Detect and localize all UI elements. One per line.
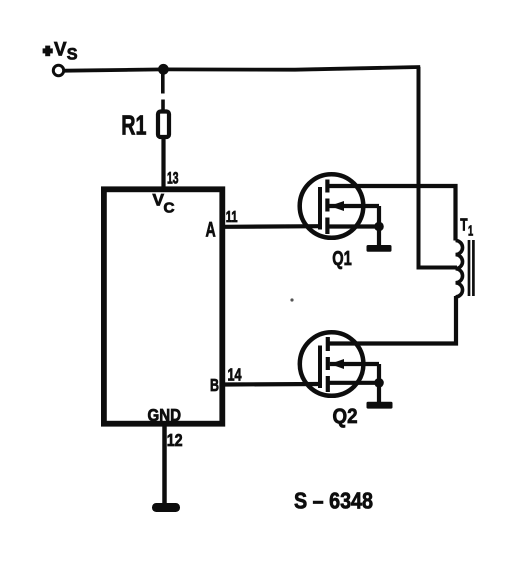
wire (+Vs terminal to junction) [65,69,164,70]
inductor T1 primary winding [456,241,463,297]
ground (below IC pin 12) [152,503,180,512]
wire (Q2 source lead to body junction) [328,381,379,385]
wire (pin 14 / B to Q2 gate) [225,382,320,387]
wire (junction to right corner of +Vs rail) [163,67,420,70]
node junction dot on +Vs rail [158,64,169,75]
svg-text:1: 1 [468,223,473,240]
transistor Q1 (MOSFET) [300,174,379,238]
wire (pin 11 / A to Q1 gate) [225,224,320,229]
wire (junction down to resistor R1, with scan gap) [161,69,165,93]
ground (Q2 source) [367,402,393,409]
svg-text:Q2: Q2 [333,405,358,428]
wire (Q1 source lead to body junction) [327,224,379,228]
ground (Q1 source) [367,245,392,252]
IC U1 (PWM driver body) [104,189,222,423]
label Vc (pin 13 name inside IC) [153,192,176,217]
label T1 [460,215,473,240]
svg-text:GND: GND [148,405,182,425]
wire (Q1 body lead down to ground) [377,206,381,246]
node +Vs label [43,39,78,63]
svg-text:C: C [164,201,176,217]
svg-text:V: V [54,39,67,60]
wire (+Vs rail down to transformer center tap corner) [419,67,458,268]
svg-text:11: 11 [226,209,238,226]
svg-text:12: 12 [167,430,183,450]
terminal (+Vs input circle) [53,65,63,75]
svg-text:14: 14 [228,365,242,385]
wire (Q2 body lead down to ground) [377,364,381,403]
svg-text:T: T [460,215,468,235]
wire (Q1 drain to transformer top) [327,186,455,241]
svg-text:13: 13 [167,169,179,188]
svg-text:V: V [153,192,165,210]
transformer T1 core [469,240,473,296]
svg-text:S – 6348: S – 6348 [294,488,373,514]
resistor R1 [158,112,169,138]
svg-text:S: S [67,45,78,63]
wire (resistor R1 to IC pin 13) [161,139,165,189]
svg-text:R1: R1 [121,110,146,141]
node Q1 source/body junction dot [374,222,384,232]
wire (Q2 drain to transformer bottom) [328,296,456,344]
wire (IC pin 12 down to ground) [162,427,167,505]
svg-text:A: A [206,219,216,242]
transistor Q2 (MOSFET) [300,332,379,396]
svg-text:B: B [210,375,219,395]
svg-text:Q1: Q1 [332,248,352,270]
node Q2 source/body junction dot [374,378,384,388]
